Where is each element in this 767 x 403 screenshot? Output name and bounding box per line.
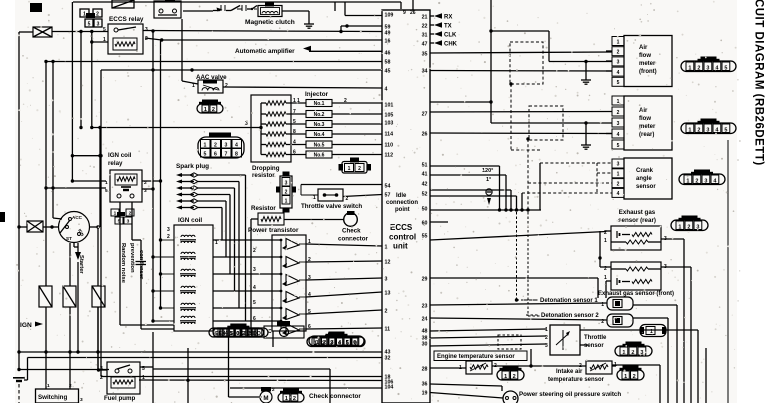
svg-text:5: 5 (724, 65, 727, 71)
svg-text:flow: flow (639, 53, 651, 59)
spark plug label (176, 163, 209, 170)
vertical rail x81 (79, 32, 82, 130)
air flow front pin stubs (606, 51, 612, 71)
svg-text:Idle: Idle (396, 193, 407, 199)
power transistor Q5 (282, 309, 311, 321)
check connector label bottom (309, 393, 361, 400)
TX signal arrow (430, 22, 452, 29)
svg-text:resistor: resistor (252, 172, 275, 179)
dropping resistor R1 (261, 101, 286, 105)
dropping resistor feed (91, 121, 251, 128)
svg-text:54: 54 (385, 183, 391, 189)
svg-text:TX: TX (444, 24, 452, 30)
bus wire y352 pin43 (19, 351, 382, 353)
svg-text:2: 2 (212, 107, 215, 113)
svg-text:1: 1 (504, 374, 507, 380)
IGN coil relay label (108, 152, 132, 167)
svg-text:3: 3 (706, 65, 709, 71)
svg-text:Power transistor: Power transistor (248, 227, 299, 234)
wire pin38 (430, 336, 546, 338)
bus wire y61 pin58 (46, 61, 382, 63)
wire pin50 (430, 208, 541, 211)
svg-text:8: 8 (235, 151, 238, 157)
svg-text:35: 35 (422, 51, 428, 57)
throttle valve switch box (313, 189, 349, 202)
svg-text:3: 3 (253, 267, 256, 273)
ECCS right pin 51 (422, 162, 428, 168)
svg-text:1: 1 (624, 374, 627, 380)
svg-text:1: 1 (604, 275, 607, 281)
exhaust rear wires (606, 231, 684, 403)
dropping resistor R4 (261, 132, 286, 136)
throttle sensor box (550, 325, 580, 355)
automatic amplifier label (235, 46, 382, 55)
svg-text:point: point (395, 207, 410, 213)
ECCS right pin 42 (422, 181, 428, 187)
check connector circle (344, 211, 358, 226)
engine temp sensor pins (459, 363, 497, 371)
svg-text:4: 4 (617, 70, 620, 76)
svg-text:5: 5 (293, 119, 296, 125)
svg-text:2: 2 (145, 36, 148, 42)
fusible link slash box F1 (112, 0, 134, 8)
svg-text:(rear): (rear) (639, 132, 654, 138)
ignition switch contacts (60, 215, 85, 241)
detonation sensor 1 label (524, 298, 598, 304)
svg-text:5: 5 (253, 300, 256, 306)
exhaust rear connector (671, 216, 708, 231)
svg-text:29: 29 (422, 276, 428, 282)
left rail x72 (71, 2, 106, 183)
crank signal labels (482, 168, 493, 183)
svg-text:2: 2 (344, 98, 347, 104)
svg-text:ACC: ACC (72, 215, 83, 220)
ECCS control unit box U1 (382, 10, 430, 403)
svg-text:1: 1 (204, 142, 207, 148)
svg-text:2: 2 (293, 396, 296, 402)
AAC valve label (196, 74, 227, 81)
svg-text:1: 1 (650, 329, 653, 335)
wire clutch to ground (282, 11, 309, 20)
bus wire y377 pin18 (101, 376, 382, 378)
ECCS left pin 46 (385, 50, 391, 56)
svg-text:105: 105 (385, 112, 394, 118)
svg-text:1: 1 (617, 39, 620, 45)
dashed wires to crank sensor (522, 163, 612, 193)
throttle valve switch wires (301, 185, 382, 197)
ignition coil 2 (180, 252, 196, 260)
svg-text:1: 1 (686, 178, 689, 184)
battery B1 (13, 378, 25, 381)
wire pin24 (430, 318, 607, 320)
magnetic clutch coil box (258, 3, 282, 17)
wire pin19 (430, 393, 503, 399)
svg-text:13: 13 (385, 290, 391, 296)
svg-text:E: E (218, 331, 222, 337)
wire pin27 (430, 102, 612, 112)
power steering switch (503, 391, 518, 403)
svg-text:IGN coil: IGN coil (108, 152, 132, 159)
svg-text:RX: RX (444, 15, 452, 21)
power transistor Q3 (282, 275, 311, 287)
right margin white (737, 0, 767, 403)
ECCS left pin 18 (385, 374, 391, 380)
wire x491 top bend (491, 31, 612, 62)
injector No.6 (286, 150, 382, 159)
svg-text:5: 5 (617, 143, 620, 149)
air flow meter front pins (612, 37, 624, 87)
svg-text:3: 3 (80, 397, 83, 403)
dropping resistor R2 (261, 112, 286, 116)
svg-text:IGN: IGN (20, 322, 32, 329)
harness outline vertical x101 (100, 70, 102, 377)
ground air flow rear (581, 121, 591, 149)
svg-text:1: 1 (285, 198, 288, 204)
svg-text:19: 19 (422, 390, 428, 396)
svg-text:26: 26 (410, 10, 416, 16)
svg-text:angle: angle (636, 176, 652, 182)
wire det to intake (529, 349, 532, 368)
svg-text:D: D (253, 331, 257, 337)
svg-text:47: 47 (422, 41, 428, 47)
svg-text:2: 2 (695, 178, 698, 184)
fuel pump relay box (107, 362, 140, 394)
svg-text:3: 3 (617, 162, 620, 168)
bus wire y357 pin32 (28, 357, 383, 359)
IGN relay pin3 wire (142, 187, 155, 190)
svg-text:4: 4 (293, 140, 296, 146)
wire pin48 (430, 329, 546, 331)
svg-text:6: 6 (214, 151, 217, 157)
det1 wire right (633, 305, 677, 403)
svg-text:57: 57 (385, 192, 391, 198)
engine temperature sensor label (434, 351, 527, 361)
ignition coil 6 (180, 316, 196, 324)
ignition coil 1 (180, 235, 196, 243)
svg-text:48: 48 (422, 328, 428, 334)
svg-text:4: 4 (617, 191, 620, 197)
battery rail x19 (17, 32, 33, 371)
svg-text:24: 24 (422, 316, 428, 322)
ECCS left pin 12 (385, 259, 391, 265)
ECCS left pin 58 (385, 59, 391, 65)
svg-text:connection: connection (386, 200, 418, 206)
air flow meter rear pins (612, 96, 624, 149)
svg-text:2: 2 (248, 331, 251, 337)
svg-text:No.1: No.1 (314, 101, 325, 107)
svg-text:Check: Check (342, 228, 361, 235)
vertical rail x153 (152, 31, 154, 321)
svg-text:0: 0 (236, 331, 239, 337)
svg-text:ECCS: ECCS (390, 223, 413, 232)
page edge line right (727, 140, 729, 403)
wire pin30 (430, 344, 546, 346)
ECCS relay body (103, 24, 148, 54)
dashed vertical x511 (509, 82, 540, 163)
fuel pump motor M (260, 387, 275, 403)
svg-text:1: 1 (617, 172, 620, 178)
wire pin36 (430, 384, 502, 391)
svg-text:5: 5 (230, 331, 233, 337)
detonation sensor 1 connector (601, 297, 633, 310)
ECCS left pin 101 (385, 102, 394, 108)
ECCS left pin 43 (385, 349, 391, 355)
svg-text:109: 109 (385, 12, 394, 18)
svg-text:2: 2 (513, 374, 516, 380)
svg-text:6: 6 (253, 316, 256, 322)
svg-text:2: 2 (617, 50, 620, 56)
svg-text:0: 0 (354, 340, 357, 346)
svg-text:(front): (front) (639, 69, 657, 75)
engine temp connector (497, 366, 524, 381)
spark plug connector 8pin (198, 133, 244, 159)
svg-text:temperature sensor: temperature sensor (548, 377, 605, 383)
dashed box mid-bottom (498, 335, 521, 349)
ECCS relay label (109, 16, 144, 23)
svg-text:ST: ST (66, 236, 72, 241)
svg-text:2: 2 (253, 248, 256, 254)
AAC valve box (192, 80, 228, 93)
svg-text:36: 36 (422, 381, 428, 387)
vertical x491 (489, 0, 612, 123)
svg-text:condenser: condenser (138, 250, 144, 280)
svg-text:9: 9 (403, 10, 406, 16)
throttle wires right (580, 330, 698, 403)
svg-text:meter: meter (639, 61, 656, 67)
svg-text:4: 4 (253, 285, 256, 291)
air flow meter rear connector (681, 119, 736, 134)
exhaust rear pins (604, 230, 667, 244)
wire pin29 (430, 278, 598, 298)
svg-text:1: 1 (604, 238, 607, 244)
spark plug wire bundle (198, 175, 246, 321)
svg-text:7: 7 (293, 109, 296, 115)
detonation sensor 2 label (526, 313, 599, 319)
battery bus bend (24, 358, 28, 381)
spark plug 1 (176, 173, 198, 177)
detonation dashed wires (515, 212, 540, 316)
svg-text:sensor (rear): sensor (rear) (618, 217, 656, 224)
power transistor box (272, 235, 306, 331)
svg-text:1: 1 (313, 195, 316, 201)
svg-text:114: 114 (385, 131, 394, 137)
svg-text:Automatic amplifier: Automatic amplifier (235, 48, 295, 55)
svg-text:12: 12 (385, 259, 391, 265)
svg-text:3: 3 (545, 343, 548, 349)
power transistor Q1 (282, 239, 311, 251)
ECCS right pin 27 (422, 111, 428, 117)
wire fuse feeds (46, 227, 98, 286)
connector E45022D row (213, 324, 264, 338)
vertical x706 (705, 348, 707, 403)
vertical rail x53 (51, 60, 62, 219)
ECCS left pin 59 (385, 24, 391, 30)
ECCS left pin 45 (385, 68, 391, 74)
svg-text:46: 46 (385, 50, 391, 56)
fuel pump check box (264, 321, 304, 338)
svg-text:5: 5 (88, 22, 91, 28)
throttle sensor label (584, 335, 607, 349)
ECCS left pin 105 (385, 112, 394, 118)
svg-text:No.5: No.5 (314, 143, 325, 149)
IGN coil pins (167, 227, 218, 246)
svg-text:110: 110 (385, 142, 394, 148)
svg-text:3: 3 (617, 60, 620, 66)
ECCS right pin 24 (422, 316, 428, 322)
svg-text:51: 51 (422, 162, 428, 168)
fuse F5 (63, 286, 76, 307)
svg-text:34: 34 (422, 68, 428, 74)
svg-text:Fuel pump: Fuel pump (104, 395, 135, 402)
svg-text:CLK: CLK (444, 33, 457, 39)
ignition coil 3 (180, 269, 196, 277)
wire crossbox3 (43, 225, 59, 228)
injector No.2 (286, 109, 382, 118)
svg-text:3: 3 (704, 178, 707, 184)
svg-text:2: 2 (697, 65, 700, 71)
wire ECCS top to magnetic clutch (341, 0, 413, 31)
AAC valve connector (197, 100, 223, 114)
dashed shield box air flow rear (529, 106, 563, 140)
wire pin55 (430, 232, 606, 241)
ECCS right pin 55 (422, 233, 428, 239)
svg-text:55: 55 (422, 233, 428, 239)
ECCS left pin 16 (385, 38, 391, 44)
IGN relay pin2 wire (142, 179, 162, 182)
ECCS right pin 36 (422, 381, 428, 387)
ECCS right pin 31 (422, 32, 428, 38)
svg-text:3: 3 (225, 142, 228, 148)
svg-text:2: 2 (285, 189, 288, 195)
wire to starter (74, 242, 78, 247)
svg-text:3: 3 (617, 121, 620, 127)
top pin 9 26 (403, 10, 416, 16)
svg-text:Throttle valve switch: Throttle valve switch (301, 203, 362, 210)
exhaust gas sensor front label (598, 291, 674, 297)
svg-text:ECCS relay: ECCS relay (109, 16, 144, 23)
resistor label (251, 205, 276, 212)
svg-text:1: 1 (114, 211, 117, 217)
svg-text:2: 2 (633, 374, 636, 380)
svg-text:Crank: Crank (636, 168, 654, 174)
wire intake right (612, 365, 616, 367)
connector 123450 (307, 333, 365, 347)
svg-text:No.3: No.3 (314, 122, 325, 128)
svg-text:5: 5 (346, 340, 349, 346)
injector No.1 (286, 98, 382, 107)
intake wire right (612, 365, 660, 403)
ECCS left pin 103 (385, 120, 394, 126)
svg-text:1: 1 (678, 224, 681, 230)
dropping resistor left rail (251, 103, 263, 155)
svg-text:Power steering oil pressure sw: Power steering oil pressure switch (519, 391, 621, 398)
ECCS left pin 112 (385, 152, 394, 158)
inline connector 1 (640, 325, 666, 337)
ground air flow front (581, 60, 591, 84)
svg-text:5: 5 (204, 151, 207, 157)
svg-text:1: 1 (215, 240, 218, 246)
svg-text:Detonation sensor 2: Detonation sensor 2 (541, 313, 599, 319)
svg-text:8: 8 (293, 129, 296, 135)
coil left rails (120, 202, 174, 329)
connector 12 bottom (278, 389, 304, 403)
svg-text:1: 1 (348, 166, 351, 172)
svg-text:Throttle: Throttle (584, 335, 607, 341)
vertical rail x91 (90, 32, 108, 130)
ECCS left pin 114 (385, 131, 394, 137)
svg-text:Resistor: Resistor (251, 205, 276, 212)
svg-text:ECCS CIRCUIT DIAGRAM (RB26DETT: ECCS CIRCUIT DIAGRAM (RB26DETT) (753, 0, 765, 166)
exhaust gas sensor front box (611, 262, 661, 290)
wire pin42 (430, 189, 511, 191)
ECCS right pin 41 (422, 171, 428, 177)
svg-text:103: 103 (385, 120, 394, 126)
svg-text:1: 1 (688, 65, 691, 71)
svg-text:No.4: No.4 (314, 132, 325, 138)
svg-text:Switching: Switching (38, 394, 67, 401)
dropping resistor label (252, 165, 280, 179)
svg-text:1: 1 (314, 340, 317, 346)
ECCS right pin 50 (422, 206, 428, 212)
spark plug 3 (176, 186, 198, 190)
RX signal arrow (430, 13, 452, 20)
svg-text:prevention: prevention (129, 243, 135, 273)
svg-text:1: 1 (83, 12, 86, 18)
svg-text:1: 1 (47, 383, 50, 389)
injector No.4 (286, 129, 382, 138)
throttle sensor connector (615, 342, 652, 357)
ECCS left pin 104 (385, 384, 394, 390)
transistor to ECCS wires (306, 244, 382, 329)
spark plug 2 (176, 179, 198, 183)
switching box (36, 383, 84, 403)
svg-text:2: 2 (358, 166, 361, 172)
ECCS right pin 28 (422, 366, 428, 372)
power transistor Q4 (282, 292, 311, 304)
throttle valve switch label (301, 203, 362, 210)
ECCS left pin 2 (385, 308, 388, 314)
wire pin35 (430, 52, 612, 53)
intake air temp label (548, 369, 605, 383)
vertical x228 bottom (229, 337, 263, 397)
air-con switch S1 (213, 5, 240, 12)
IGN coil box (174, 225, 213, 331)
crank angle sensor pins (612, 159, 624, 197)
crank angle sensor box (624, 158, 672, 199)
svg-text:3: 3 (285, 180, 288, 186)
power transistor Q6 (282, 324, 311, 336)
svg-text:2: 2 (69, 383, 72, 389)
svg-text:5: 5 (724, 127, 727, 133)
wire AAC valve feed (182, 19, 198, 84)
power transistor Q2 (282, 257, 311, 269)
ECCS left pin 109 (385, 12, 394, 18)
svg-text:connector: connector (338, 236, 369, 243)
svg-text:112: 112 (385, 152, 394, 158)
ECCS left pin 32 (385, 355, 391, 361)
ECCS left pin 110 (385, 142, 394, 148)
svg-text:Check connector: Check connector (309, 393, 361, 400)
svg-text:5: 5 (617, 80, 620, 86)
svg-text:Random noise: Random noise (120, 243, 126, 284)
wire pin60 (430, 221, 448, 223)
svg-text:flow: flow (639, 116, 651, 122)
ECCS left pin 3 (385, 276, 388, 282)
bus wire y31 battery rail (52, 24, 382, 33)
svg-text:1: 1 (105, 180, 108, 186)
coil to transistor wires (213, 239, 282, 323)
ignition switch body (59, 212, 90, 243)
